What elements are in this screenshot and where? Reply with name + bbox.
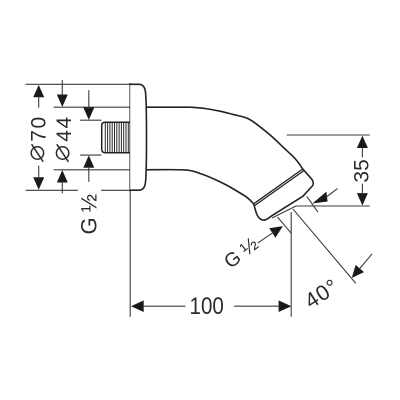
threaded connector G1/2 (block)	[102, 122, 131, 152]
35-corner leader arrow	[312, 192, 327, 204]
G1/2 spout tick	[278, 217, 292, 233]
40-degree leader arrow	[352, 265, 364, 278]
svg-text:½: ½	[77, 194, 102, 212]
dim ext line 35 top	[287, 134, 369, 136]
35-corner tick	[307, 197, 318, 212]
dim O44 arrow bottom (outside, pointing up)	[57, 170, 68, 182]
wall flange body	[130, 84, 146, 190]
dim ext line G1/2 top	[81, 119, 102, 121]
dim ext line G1/2 bottom	[81, 154, 102, 156]
dim ext line 35 bottom	[296, 205, 369, 207]
dim 100 line right segment + arrow	[279, 300, 292, 312]
dim G1/2 arrow bottom (outside, pointing up)	[83, 155, 94, 167]
thread hatch lines	[105, 123, 128, 152]
svg-text:70: 70	[27, 115, 50, 142]
G1/2 spout leader arrow	[269, 226, 283, 238]
35-dim oblique extension stub from spout corner	[273, 206, 297, 218]
spout joint double line	[254, 169, 303, 204]
svg-text:G: G	[77, 217, 102, 234]
dim ext line O44 top	[54, 106, 130, 108]
shower arm outline	[145, 107, 313, 220]
svg-text:44: 44	[53, 115, 76, 142]
dim ext line O70 top	[26, 83, 130, 85]
dim 100 line left segment + arrow	[131, 300, 144, 312]
label O44 diameter symbol	[56, 147, 68, 159]
dim O44 arrow top (outside, pointing down)	[57, 95, 68, 107]
flange left face and 100-dim left extension line	[129, 84, 131, 191]
dim 35 arrow bottom	[357, 193, 368, 205]
100-dim right extension / 40-degree vertical line	[290, 212, 292, 316]
dim O70 arrow top	[33, 85, 44, 97]
dim O70 arrow bottom	[33, 177, 44, 189]
dim 35 arrow top	[357, 136, 368, 148]
dim G1/2 arrow top (outside, pointing down)	[83, 108, 94, 120]
dim ext line O70 bottom (gap for G1/2 label)	[26, 189, 78, 191]
svg-text:35: 35	[351, 159, 374, 182]
label O70 diameter symbol	[31, 147, 43, 159]
40-degree slanted line	[293, 209, 355, 283]
svg-text:100: 100	[190, 292, 224, 319]
dim ext line O44 bottom	[54, 169, 130, 171]
